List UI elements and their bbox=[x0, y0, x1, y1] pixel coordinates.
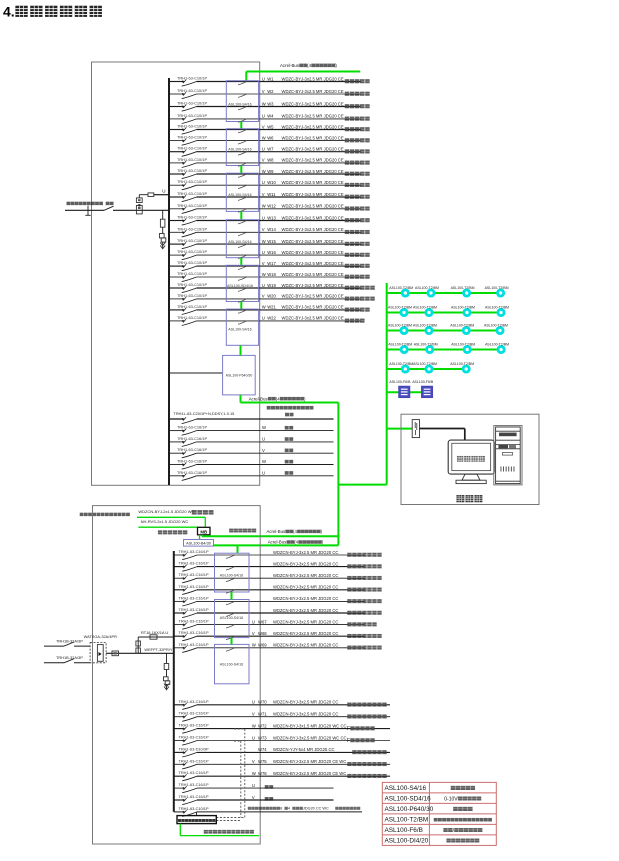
wire converter to computer bbox=[420, 429, 465, 441]
svg-text:U: U bbox=[262, 114, 265, 119]
sensor ASL100-T2/BM (branch 2 #4) bbox=[485, 305, 509, 315]
legend table bbox=[382, 782, 496, 845]
wire W12 bbox=[169, 204, 370, 211]
breaker TRH1-63-C10/1P (circuit W5) bbox=[177, 124, 207, 135]
sensor ASL100-T2/BM (branch 4 #4) bbox=[485, 342, 509, 352]
fuse F1 (SPD branch) bbox=[160, 219, 165, 227]
svg-text:W13: W13 bbox=[267, 215, 276, 220]
breaker TRH1-63-C16/1P (emergency 4) bbox=[179, 584, 209, 595]
wire lower circuit 9 bbox=[174, 795, 334, 801]
fuse F2 (SPD branch bottom) bbox=[164, 664, 169, 670]
svg-text:WDZC-BYJ-3x2.5 MR JDG20 CE: WDZC-BYJ-3x2.5 MR JDG20 CE bbox=[282, 215, 344, 220]
fuse RT18-16X/1A bbox=[136, 630, 174, 654]
wire W11 bbox=[169, 192, 370, 199]
svg-text:TRH1-63-C10/1P: TRH1-63-C10/1P bbox=[177, 249, 207, 254]
breaker TRH1-63-C10/1P (circuit W9) bbox=[177, 168, 207, 179]
ground arrow (surge arrester) bbox=[160, 242, 165, 249]
sensor ASL100-T2/BM (branch 3 #1) bbox=[388, 323, 412, 333]
svg-text:W3: W3 bbox=[267, 101, 274, 106]
svg-text:TRH1-63-C16/1P: TRH1-63-C16/1P bbox=[179, 782, 209, 787]
net label 置于模块箱内 bbox=[229, 529, 233, 533]
svg-text:TRH1-63-C10/1P: TRH1-63-C10/1P bbox=[177, 113, 207, 118]
svg-text:ASL100-DI4/20: ASL100-DI4/20 bbox=[385, 837, 429, 844]
svg-text:WDZC-BYJ-3x2.5 MR JDG20 CE: WDZC-BYJ-3x2.5 MR JDG20 CE bbox=[282, 89, 344, 94]
breaker TRH1B-32A/3P feeder 2 bbox=[44, 655, 90, 663]
wire sensor trunk vertical (green) bbox=[386, 283, 388, 485]
breaker TRH1-63-C10/1P (circuit W6) bbox=[177, 135, 207, 146]
svg-text:U: U bbox=[262, 215, 265, 220]
svg-text:ASL100-S4/16: ASL100-S4/16 bbox=[228, 240, 251, 244]
breaker TRH1-63-C16/1P (lower 4) bbox=[179, 735, 209, 746]
svg-text:TRH1-63-C10/1P: TRH1-63-C10/1P bbox=[177, 238, 207, 243]
breaker TRH1-63-C16/1P (emergency 9) bbox=[179, 642, 209, 653]
svg-text:U: U bbox=[252, 619, 255, 624]
svg-text:W8: W8 bbox=[267, 158, 274, 163]
svg-text:TRH1-63-C16/1P: TRH1-63-C16/1P bbox=[177, 470, 207, 475]
wire supply drop to module bbox=[196, 812, 198, 816]
label 中控室 bbox=[456, 495, 464, 502]
wire W17 bbox=[169, 261, 370, 268]
wire power circuit to MB (green) bbox=[137, 509, 214, 528]
svg-text:W9: W9 bbox=[267, 169, 274, 174]
wire sensor branch 1 (green) bbox=[387, 292, 501, 294]
svg-text:TRH1-63-C10/1P: TRH1-63-C10/1P bbox=[177, 179, 207, 184]
svg-text:TRH1-63-C10/1P: TRH1-63-C10/1P bbox=[177, 88, 207, 93]
svg-text:V: V bbox=[262, 294, 265, 299]
wire Acrel-Bus link between modules (green) bbox=[240, 258, 242, 266]
breaker TRH1-63-C16/1P (spare 3) bbox=[177, 447, 207, 458]
sensor ASL100-T2/BM (branch 1 #1) bbox=[389, 286, 413, 296]
wire sensor branch 3 (green) bbox=[387, 330, 500, 332]
wire lower circuit 4 bbox=[174, 735, 390, 744]
svg-text:U: U bbox=[252, 735, 255, 740]
wire emergency circuit 8 bbox=[174, 631, 382, 638]
computer tower bbox=[494, 426, 522, 485]
surge arrester top panel bbox=[160, 234, 165, 238]
wire emergency circuit 9 bbox=[174, 643, 382, 650]
svg-text:WDZCN-BYJ-3x2.5 MR JDG20 CC: WDZCN-BYJ-3x2.5 MR JDG20 CC bbox=[273, 561, 338, 566]
wire W18 bbox=[169, 272, 370, 279]
svg-text:WDZC-BYJ-3x2.5 MR JDG20 CE: WDZC-BYJ-3x2.5 MR JDG20 CE bbox=[282, 124, 344, 129]
smart panel ASL100-F6/B #2 bbox=[412, 380, 434, 397]
svg-text:U: U bbox=[262, 316, 265, 321]
svg-text:TRH1-63-C10/1P: TRH1-63-C10/1P bbox=[177, 203, 207, 208]
svg-text:W: W bbox=[262, 239, 266, 244]
svg-text:WDZCN-BYJ-3x2.5 MR JDG20 CC: WDZCN-BYJ-3x2.5 MR JDG20 CC bbox=[273, 631, 338, 636]
svg-text:W69: W69 bbox=[258, 643, 267, 648]
breaker TRH1-63-C10/1P (circuit W22) bbox=[177, 315, 207, 326]
svg-text:WDZC-BYJ-3x2.5 MR JDG20 CE: WDZC-BYJ-3x2.5 MR JDG20 CE bbox=[282, 204, 344, 209]
svg-text:WDZC-BYJ-3x2.5 MR JDG20 CE: WDZC-BYJ-3x2.5 MR JDG20 CE bbox=[282, 180, 344, 185]
wire W1 bbox=[169, 76, 370, 83]
svg-text:TRH1-63-C10/1P: TRH1-63-C10/1P bbox=[177, 146, 207, 151]
svg-text:WEFPT-32PR/Y: WEFPT-32PR/Y bbox=[144, 647, 173, 652]
svg-text:W: W bbox=[252, 723, 256, 728]
svg-text:TRH1-63-C10/1P: TRH1-63-C10/1P bbox=[177, 293, 207, 298]
svg-text:WDZC-BYJ-3x2.5 MR JDG20 CE: WDZC-BYJ-3x2.5 MR JDG20 CE bbox=[282, 169, 344, 174]
svg-text:(4: (4 bbox=[307, 63, 311, 68]
svg-text:U: U bbox=[262, 180, 265, 185]
room outline 中控室 bbox=[401, 414, 539, 504]
svg-text:ASL100-T2/BM: ASL100-T2/BM bbox=[414, 342, 438, 346]
wire Acrel-Bus to lower panel (green) bbox=[214, 545, 339, 553]
svg-text:TRH1-63-C16/1P: TRH1-63-C16/1P bbox=[177, 459, 207, 464]
svg-text:W17: W17 bbox=[267, 261, 276, 266]
relay module ASL100-S4/16 (group 4) bbox=[226, 220, 258, 259]
svg-text:RT18-16X/1A U: RT18-16X/1A U bbox=[141, 630, 168, 635]
main bus - top panel bbox=[168, 78, 170, 485]
svg-text:W73: W73 bbox=[258, 735, 267, 740]
svg-text:TRH1-63-C10/1P: TRH1-63-C10/1P bbox=[177, 315, 207, 320]
wire MB to Acrel bus (green) bbox=[202, 535, 338, 536]
breaker TRH1-63-C10/1P (circuit W7) bbox=[177, 146, 207, 157]
svg-text:4: 4 bbox=[288, 807, 290, 811]
svg-text:W16: W16 bbox=[267, 250, 276, 255]
wire Acrel-Bus link between modules (green) bbox=[240, 211, 242, 219]
svg-text:WDZCN-BYJ-3x2.5 MR JDG20 CC: WDZCN-BYJ-3x2.5 MR JDG20 CC bbox=[273, 573, 338, 578]
svg-text:ASL100-T2/BM: ASL100-T2/BM bbox=[451, 286, 475, 290]
power module ASL100-P640/30 bbox=[223, 355, 256, 395]
wire spare feeder (metered) bbox=[169, 406, 334, 419]
transfer switch WATSGA-32A/4PR bbox=[84, 634, 117, 663]
wire lower circuit 8 bbox=[174, 783, 334, 789]
svg-text:U: U bbox=[262, 470, 265, 475]
svg-text:U: U bbox=[252, 783, 255, 788]
fuse link on U tap bbox=[148, 193, 154, 197]
sensor ASL100-T2/BM (branch 3 #3) bbox=[450, 323, 474, 333]
svg-text:W71: W71 bbox=[258, 712, 267, 717]
svg-text:ASL100-T2/BM: ASL100-T2/BM bbox=[413, 362, 437, 366]
svg-text:ASL100-T2/BM: ASL100-T2/BM bbox=[485, 305, 509, 309]
relay module ASL100-S4/16 (emergency group 3) bbox=[215, 644, 250, 683]
svg-text:WDZC-BYJ-3x2.5 MR JDG20 CE: WDZC-BYJ-3x2.5 MR JDG20 CE bbox=[282, 135, 344, 140]
wire Acrel-Bus link between modules (green) bbox=[240, 302, 242, 310]
svg-text:W10: W10 bbox=[267, 180, 276, 185]
isolator switch on feeder bbox=[104, 206, 114, 210]
svg-text:W: W bbox=[262, 459, 266, 464]
wire Acrel-Bus link groups 1-2 (green) bbox=[231, 592, 233, 600]
svg-text:U: U bbox=[262, 283, 265, 288]
breaker TRH1-63-C10/1P (circuit W14) bbox=[177, 226, 207, 237]
breaker TRH1-63-C16/1P (emergency 5) bbox=[179, 595, 209, 606]
terminal block on ATS output bbox=[112, 651, 119, 656]
relay module ASL100-SD4/16 (group 5) bbox=[226, 265, 258, 302]
svg-text:TRH1-63-C16/1P: TRH1-63-C16/1P bbox=[177, 436, 207, 441]
svg-text:W20: W20 bbox=[267, 294, 276, 299]
svg-text:TRH1-63-C10/1P: TRH1-63-C10/1P bbox=[177, 76, 207, 81]
relay module ASL100-S4/16 (emergency group 1) bbox=[215, 553, 250, 593]
svg-text:W68: W68 bbox=[258, 631, 267, 636]
breaker TRH1-63-C16/1P (spare 2) bbox=[177, 436, 207, 447]
wire spare 3 bbox=[169, 448, 334, 453]
relay module ASL100-S4/16 (group 3) bbox=[226, 173, 258, 212]
wire W16 bbox=[169, 250, 370, 257]
breaker TRH1-63-C10/1P (evacuation supply) bbox=[179, 806, 209, 817]
svg-text:U: U bbox=[262, 437, 265, 442]
svg-text:W: W bbox=[262, 305, 266, 310]
wire SPD branch bottom bbox=[166, 653, 168, 663]
svg-text:W74: W74 bbox=[258, 747, 267, 752]
svg-text:W67: W67 bbox=[258, 619, 267, 624]
relay module ASL100-S4/16 (emergency group 2) bbox=[215, 600, 250, 640]
svg-text:W75: W75 bbox=[258, 759, 267, 764]
breaker TRH1-63-C16/1P (lower 9) bbox=[179, 794, 209, 805]
svg-text:WDZC-BYJ-3x2.5 MR JDG20 CE: WDZC-BYJ-3x2.5 MR JDG20 CE bbox=[282, 147, 344, 152]
sensor ASL100-T2/BM (branch 4 #1) bbox=[388, 342, 412, 352]
sensor ASL100-T2/BM (branch 3 #4) bbox=[484, 323, 508, 333]
wire emergency circuit 4 bbox=[174, 585, 382, 592]
wire panel branch (green) bbox=[387, 391, 422, 393]
wire W10 bbox=[169, 180, 370, 187]
svg-text:TRH1-63-C10/1P: TRH1-63-C10/1P bbox=[177, 191, 207, 196]
wire W2 bbox=[169, 89, 370, 96]
breaker TRH1-63-C10/1P (circuit W3) bbox=[177, 101, 207, 112]
breaker TRH1-63-C16/1P (emergency 3) bbox=[179, 572, 209, 583]
svg-text:ASL100-F6/B: ASL100-F6/B bbox=[385, 827, 423, 834]
wire lower circuit 1 bbox=[174, 700, 390, 707]
svg-text:WATSGA-32A/4PR: WATSGA-32A/4PR bbox=[84, 634, 117, 639]
svg-text:TRH1-63-C16/1P: TRH1-63-C16/1P bbox=[179, 699, 209, 704]
svg-text:WDZC-BYJ-3x2.5 MR JDG20 CE: WDZC-BYJ-3x2.5 MR JDG20 CE bbox=[282, 294, 344, 299]
svg-text:WDZCN-BYJ-3x2.5 MR JDG20 CE WC: WDZCN-BYJ-3x2.5 MR JDG20 CE WC bbox=[273, 771, 346, 776]
svg-text:ASL100-T2/BM: ASL100-T2/BM bbox=[388, 342, 412, 346]
svg-text:ASL100-S4/16: ASL100-S4/16 bbox=[228, 102, 251, 106]
svg-text:W70: W70 bbox=[258, 700, 267, 705]
svg-text:WDZCN-BYJ-3x2.5 MR JDG20 CC: WDZCN-BYJ-3x2.5 MR JDG20 CC bbox=[273, 712, 338, 717]
breaker TRH1-63-C10/1P (circuit W4) bbox=[177, 113, 207, 124]
svg-text:U: U bbox=[162, 189, 165, 194]
svg-text:WDZC-BYJ-3x2.5 MR JDG20 CE: WDZC-BYJ-3x2.5 MR JDG20 CE bbox=[282, 283, 344, 288]
svg-text:ASL100-T2/BM: ASL100-T2/BM bbox=[413, 305, 437, 309]
breaker TRH1-63-C10/1P (circuit W20) bbox=[177, 293, 207, 304]
svg-text:Acrel-Bus: Acrel-Bus bbox=[249, 396, 269, 401]
breaker TRH1-63-C16/1P (emergency 1) bbox=[179, 549, 209, 560]
svg-text:W: W bbox=[252, 643, 256, 648]
svg-text:TRH1B-32A/3P: TRH1B-32A/3P bbox=[56, 655, 83, 660]
breaker TRH1-63-C10/1P (circuit W16) bbox=[177, 249, 207, 260]
svg-text:ASL100-F6/B: ASL100-F6/B bbox=[389, 380, 411, 384]
svg-text:V: V bbox=[262, 89, 265, 94]
svg-text:ASL100-T2/BM: ASL100-T2/BM bbox=[388, 323, 412, 327]
wire emergency circuit 7 bbox=[174, 619, 377, 626]
breaker TRH1-63-C10/1P (circuit W18) bbox=[177, 271, 207, 282]
svg-text:WDZC-BYJ-3x2.5 MR JDG20 CE: WDZC-BYJ-3x2.5 MR JDG20 CE bbox=[282, 101, 344, 106]
svg-text:WDZC-BYJ-3x2.5 MR JDG20 CE: WDZC-BYJ-3x2.5 MR JDG20 CE bbox=[282, 227, 344, 232]
svg-text:ASL100-T2/BM: ASL100-T2/BM bbox=[385, 816, 429, 823]
svg-text:ASL100-T2/BM: ASL100-T2/BM bbox=[450, 362, 474, 366]
wire W14 bbox=[169, 227, 370, 234]
svg-text:W: W bbox=[262, 272, 266, 277]
sensor ASL100-T2/BM (branch 4 #2) bbox=[414, 342, 438, 352]
wire Acrel-Bus link between modules (green) bbox=[240, 166, 242, 174]
svg-text:WDZC-BYJ-3x2.5 MR JDG20 CE: WDZC-BYJ-3x2.5 MR JDG20 CE bbox=[282, 114, 344, 119]
wire ATS output bbox=[106, 652, 174, 654]
wire lower circuit 3 bbox=[174, 723, 390, 732]
breaker TRH1-63-D10/3P (lower 5) bbox=[179, 746, 209, 757]
svg-text:WDZCN-BYJ-2x1.5 JDG20 WC: WDZCN-BYJ-2x1.5 JDG20 WC bbox=[138, 509, 194, 514]
sensor ASL100-T2/BM (branch 1 #2) bbox=[415, 286, 439, 296]
wire W6 bbox=[169, 135, 370, 142]
svg-text:V: V bbox=[262, 448, 265, 453]
breaker TRH1-63-C16/1P (lower 7) bbox=[179, 770, 209, 781]
svg-text:TRH1L-63-C20/1P+N,DDSY,1-0.15: TRH1L-63-C20/1P+N,DDSY,1-0.15 bbox=[174, 411, 235, 416]
wire emergency circuit 3 bbox=[174, 573, 382, 580]
svg-text:Acrel-Bus: Acrel-Bus bbox=[268, 540, 287, 545]
svg-text:W: W bbox=[252, 771, 256, 776]
sensor ASL100-T2/BM (branch 3 #2) bbox=[413, 323, 437, 333]
svg-text:WDZC-BYJ-3x2.5 MR JDG20 CE: WDZC-BYJ-3x2.5 MR JDG20 CE bbox=[282, 316, 344, 321]
meter box upper (kWh) bbox=[136, 198, 142, 203]
svg-text:V: V bbox=[262, 261, 265, 266]
wire incoming feeder bbox=[65, 209, 104, 211]
svg-text:TRH1-63-C10/1P: TRH1-63-C10/1P bbox=[177, 282, 207, 287]
relay module ASL100-S4/16 (group 2) bbox=[226, 129, 258, 167]
svg-text:WDZC-BYJ-3x2.5 MR JDG20 CE: WDZC-BYJ-3x2.5 MR JDG20 CE bbox=[282, 239, 344, 244]
svg-text:WDZCN-BYJ-3x2.5 MR JDG20 CC: WDZCN-BYJ-3x2.5 MR JDG20 CC bbox=[273, 608, 338, 613]
svg-text:(4: (4 bbox=[293, 529, 297, 534]
svg-text:ASL100-T2/BM: ASL100-T2/BM bbox=[451, 305, 475, 309]
svg-text:V: V bbox=[262, 192, 265, 197]
svg-text:W76: W76 bbox=[258, 771, 267, 776]
svg-text:F: F bbox=[347, 726, 350, 732]
breaker TRH1-63-C16/1P (lower 2) bbox=[179, 711, 209, 722]
svg-text:TRH1B-32A/3P: TRH1B-32A/3P bbox=[56, 638, 83, 643]
svg-text:ASL100-B4/30: ASL100-B4/30 bbox=[186, 542, 211, 546]
svg-text:TRH1-63-D10/3P: TRH1-63-D10/3P bbox=[179, 746, 209, 751]
breaker TRH1-63-C10/1P (circuit W11) bbox=[177, 191, 207, 202]
wire W13 bbox=[169, 215, 370, 222]
svg-text:ASL100-S4/16: ASL100-S4/16 bbox=[228, 193, 251, 197]
svg-text:TRH1-63-C16/1P: TRH1-63-C16/1P bbox=[179, 549, 209, 554]
svg-text:ASL100-T2/BM: ASL100-T2/BM bbox=[450, 323, 474, 327]
svg-text:U: U bbox=[262, 147, 265, 152]
wire branch to control room (green) bbox=[387, 428, 413, 430]
svg-text:TRH1-63-C16/1P: TRH1-63-C16/1P bbox=[179, 630, 209, 635]
svg-text:W14: W14 bbox=[267, 227, 276, 232]
wire sensor branch 2 (green) bbox=[387, 312, 501, 314]
svg-text:Acrel-Bus: Acrel-Bus bbox=[280, 63, 300, 68]
svg-text:TRH1-63-C16/1P: TRH1-63-C16/1P bbox=[179, 758, 209, 763]
wire voltage tap U bbox=[139, 195, 169, 198]
svg-text:WDZC-BYJ-3x2.5 MR JDG20 CE: WDZC-BYJ-3x2.5 MR JDG20 CE bbox=[282, 272, 344, 277]
svg-text:WDZC-BYJ-3x2.5 MR JDG20 CE: WDZC-BYJ-3x2.5 MR JDG20 CE bbox=[282, 261, 344, 266]
wire sensor branch 4 (green) bbox=[387, 349, 501, 351]
svg-text:WDZCN-YJY-5x4 MR JDG25 CC: WDZCN-YJY-5x4 MR JDG25 CC bbox=[273, 747, 335, 752]
wire W8 bbox=[169, 158, 370, 165]
svg-text:ASL100-P640/30: ASL100-P640/30 bbox=[226, 374, 253, 378]
svg-text:TRH1-63-C10/1P: TRH1-63-C10/1P bbox=[177, 157, 207, 162]
svg-text:W: W bbox=[262, 169, 266, 174]
svg-text:WDZCN-BYJ-3x2.5 MR JDG20 CC: WDZCN-BYJ-3x2.5 MR JDG20 CC bbox=[273, 585, 338, 590]
breaker TRH1-63-C16/1P (spare 1) bbox=[177, 425, 207, 436]
svg-text:W18: W18 bbox=[267, 272, 276, 277]
svg-text:W19: W19 bbox=[267, 283, 276, 288]
svg-text:ASL100-F6/B: ASL100-F6/B bbox=[412, 380, 434, 384]
wire Acrel-Bus out of power module (green) bbox=[241, 395, 339, 403]
svg-text:NH-RVS-2x1.5 JDG20 WC: NH-RVS-2x1.5 JDG20 WC bbox=[141, 519, 189, 524]
breaker TRH1-63-C16/1P (emergency 7) bbox=[179, 619, 209, 630]
svg-text:F: F bbox=[347, 738, 350, 744]
svg-text:4.: 4. bbox=[3, 4, 15, 20]
svg-text:W2: W2 bbox=[267, 89, 274, 94]
wire W9 bbox=[169, 169, 370, 176]
svg-text:TRH1-63-C10/1P: TRH1-63-C10/1P bbox=[177, 168, 207, 173]
svg-text:TRH1-63-C16/1P: TRH1-63-C16/1P bbox=[179, 595, 209, 600]
breaker TRH1-63-C16/1P (lower 6) bbox=[179, 758, 209, 769]
svg-text:ASL100-S4/16: ASL100-S4/16 bbox=[228, 328, 251, 332]
wire spare 4 bbox=[169, 459, 334, 464]
wire Acrel-Bus link module6 to power module (green) bbox=[240, 345, 242, 355]
svg-text:TRH1-63-C16/1P: TRH1-63-C16/1P bbox=[177, 447, 207, 452]
svg-text:ASL100-T2/BM: ASL100-T2/BM bbox=[389, 286, 413, 290]
breaker TRH1-63-C16/1P (emergency 2) bbox=[179, 561, 209, 572]
svg-text:ASL100-T2/BM: ASL100-T2/BM bbox=[451, 342, 475, 346]
wire W21 bbox=[169, 305, 370, 312]
svg-text:TRH1-63-C16/1P: TRH1-63-C16/1P bbox=[179, 642, 209, 647]
breaker TRH1-63-C16/1P (lower 3) bbox=[179, 723, 209, 734]
svg-text:WDZCN-BYJ-3x2.5 MR JDG20 CC: WDZCN-BYJ-3x2.5 MR JDG20 CC bbox=[273, 596, 338, 601]
svg-text:W: W bbox=[262, 425, 266, 430]
breaker TRH1-63-C10/1P (circuit W10) bbox=[177, 179, 207, 190]
wire spare 5 bbox=[169, 470, 334, 475]
svg-text:TRH1-63-C10/1P: TRH1-63-C10/1P bbox=[177, 101, 207, 106]
wire emergency circuit 2 bbox=[174, 561, 382, 568]
svg-text:WDZCN-BYJ-3x2.5 MR JDG20 CE WC: WDZCN-BYJ-3x2.5 MR JDG20 CE WC bbox=[273, 759, 346, 764]
breaker TRH1L-63-C20/1P+N DDSY metering bbox=[174, 411, 235, 423]
svg-text:W7: W7 bbox=[267, 147, 274, 152]
breaker TRH1-63-C10/1P (circuit W13) bbox=[177, 215, 207, 226]
meter box lower (CT) bbox=[136, 205, 142, 214]
svg-text:V: V bbox=[252, 712, 255, 717]
svg-text:TRH1-63-C16/1P: TRH1-63-C16/1P bbox=[179, 572, 209, 577]
breaker TRH1-63-C16/1P (lower 1) bbox=[179, 699, 209, 710]
svg-text:ASL100-S4/16: ASL100-S4/16 bbox=[220, 574, 243, 578]
ground arrow bottom bbox=[164, 684, 169, 690]
relay module ASL100-S4/16 (group 1) bbox=[226, 81, 258, 123]
wire MB to gateway (green) bbox=[199, 535, 201, 540]
svg-text:WDZC-BYJ-3x2.5 MR JDG20 CE: WDZC-BYJ-3x2.5 MR JDG20 CE bbox=[282, 250, 344, 255]
svg-text:WDZCN-BYJ-3x2.5 MR JDG20 CC: WDZCN-BYJ-3x2.5 MR JDG20 CC bbox=[273, 619, 338, 624]
wire Acrel-Bus vertical riser (green) bbox=[337, 403, 339, 546]
svg-text:V: V bbox=[262, 227, 265, 232]
breaker TRH1-63-C16/1P (emergency 6) bbox=[179, 607, 209, 618]
main bus - bottom panel bbox=[173, 551, 175, 812]
svg-text:8: 8 bbox=[280, 807, 282, 811]
sensor ASL100-T2/BM (branch 5 #2) bbox=[413, 362, 437, 372]
svg-text:TRH1-63-C16/1P: TRH1-63-C16/1P bbox=[179, 584, 209, 589]
wire lower circuit 7 bbox=[174, 771, 390, 778]
svg-text:(4: (4 bbox=[276, 396, 280, 401]
svg-text:TRH1-63-C10/1P: TRH1-63-C10/1P bbox=[177, 215, 207, 220]
wire W22 bbox=[169, 316, 365, 323]
svg-text:U: U bbox=[262, 76, 265, 81]
sensor ASL100-T2/BM (branch 1 #3) bbox=[451, 286, 475, 296]
svg-text:W22: W22 bbox=[267, 316, 276, 321]
breaker TRH1-63-C16/1P (emergency 8) bbox=[179, 630, 209, 641]
svg-text:TRH1-63-C16/1P: TRH1-63-C16/1P bbox=[179, 619, 209, 624]
wire feed to power module bbox=[169, 372, 223, 374]
breaker TRH1-63-C10/1P (circuit W21) bbox=[177, 304, 207, 315]
surge arrester bottom panel bbox=[164, 677, 169, 681]
wire W5 bbox=[169, 124, 370, 131]
svg-text:W11: W11 bbox=[267, 192, 276, 197]
svg-text:TRH1-63-C16/1P: TRH1-63-C16/1P bbox=[179, 711, 209, 716]
svg-text:ASL100-T2/BM: ASL100-T2/BM bbox=[415, 286, 439, 290]
svg-text:ASL100-T2/BM: ASL100-T2/BM bbox=[389, 362, 413, 366]
svg-text:WDZCN-BYJ-3x2.5 MR JDG20 CC: WDZCN-BYJ-3x2.5 MR JDG20 CC bbox=[273, 700, 338, 705]
breaker TRH1-63-C10/1P (circuit W17) bbox=[177, 260, 207, 271]
breaker TRH1-63-C16/1P (lower 8) bbox=[179, 782, 209, 793]
